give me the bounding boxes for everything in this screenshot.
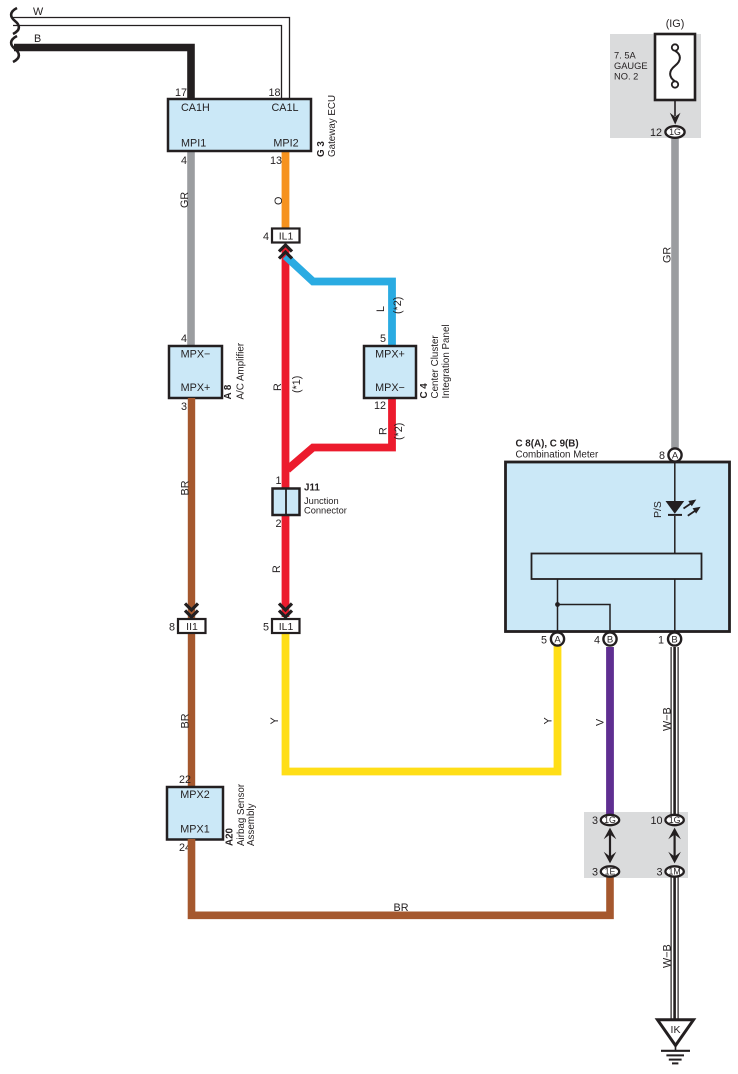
svg-text:Connector: Connector bbox=[304, 506, 347, 516]
svg-text:1: 1 bbox=[275, 475, 281, 487]
svg-text:7. 5A: 7. 5A bbox=[614, 51, 637, 61]
wire R main (red) bbox=[282, 247, 290, 617]
svg-text:13: 13 bbox=[270, 155, 282, 167]
svg-text:5: 5 bbox=[541, 635, 547, 647]
oval 1G pin 3 bbox=[601, 815, 619, 825]
svg-text:Junction: Junction bbox=[304, 496, 339, 506]
svg-text:(*2): (*2) bbox=[393, 423, 405, 440]
svg-text:18: 18 bbox=[268, 87, 280, 99]
svg-text:P/S: P/S bbox=[652, 501, 664, 518]
svg-text:1E: 1E bbox=[605, 867, 616, 877]
svg-text:A 8: A 8 bbox=[223, 384, 234, 399]
svg-text:MPX+: MPX+ bbox=[375, 349, 405, 361]
wire W-B lower bbox=[670, 877, 678, 1020]
wire Y (yellow) bbox=[286, 632, 558, 772]
cut mark W bbox=[11, 8, 19, 34]
svg-text:3: 3 bbox=[656, 867, 662, 879]
svg-text:MPX+: MPX+ bbox=[181, 382, 211, 394]
svg-text:B: B bbox=[34, 33, 41, 45]
svg-text:1: 1 bbox=[658, 635, 664, 647]
svg-text:II1: II1 bbox=[186, 621, 198, 633]
svg-text:2: 2 bbox=[275, 518, 281, 530]
svg-text:B: B bbox=[671, 634, 677, 645]
svg-text:R: R bbox=[272, 383, 284, 391]
svg-text:(*1): (*1) bbox=[291, 376, 303, 393]
svg-text:3: 3 bbox=[181, 401, 187, 413]
svg-text:IL1: IL1 bbox=[279, 621, 294, 633]
svg-text:5: 5 bbox=[380, 333, 386, 345]
ground IK triangle bbox=[658, 1020, 694, 1046]
wire BR left (brown) bbox=[188, 398, 195, 787]
svg-text:NO. 2: NO. 2 bbox=[614, 72, 638, 82]
svg-text:GAUGE: GAUGE bbox=[614, 61, 648, 71]
svg-text:Y: Y bbox=[269, 717, 281, 724]
svg-text:W−B: W−B bbox=[662, 707, 674, 731]
fuse output line and arrow bbox=[674, 100, 676, 116]
svg-text:8: 8 bbox=[169, 622, 175, 634]
svg-text:(*2): (*2) bbox=[392, 297, 404, 314]
svg-text:A: A bbox=[672, 450, 679, 461]
internal line to pin 1 bbox=[674, 579, 676, 632]
pin 1 circle B bbox=[668, 632, 681, 645]
svg-text:R: R bbox=[271, 565, 283, 573]
svg-text:MPX1: MPX1 bbox=[180, 824, 209, 836]
svg-text:(IG): (IG) bbox=[666, 18, 685, 30]
double arrow left pair bbox=[609, 834, 611, 857]
junction dot bbox=[555, 602, 560, 607]
svg-text:B: B bbox=[607, 634, 613, 645]
internal line from pin 8 bbox=[674, 462, 676, 501]
svg-text:1M: 1M bbox=[668, 867, 680, 877]
ground stem bbox=[675, 1046, 677, 1051]
svg-text:5: 5 bbox=[263, 622, 269, 634]
svg-text:GR: GR bbox=[179, 192, 191, 208]
combination meter box bbox=[506, 462, 730, 632]
wire GR right (gray) bbox=[671, 138, 679, 449]
pin 8 circle A bbox=[668, 448, 681, 461]
svg-text:4: 4 bbox=[263, 231, 269, 243]
svg-text:Integration Panel: Integration Panel bbox=[441, 324, 452, 398]
svg-text:10: 10 bbox=[650, 815, 662, 827]
svg-text:CA1L: CA1L bbox=[271, 102, 298, 114]
connector II1 pin 8 bbox=[185, 604, 198, 618]
oval 1G pin 10 bbox=[665, 815, 683, 825]
svg-text:4: 4 bbox=[181, 333, 187, 345]
pin 5 circle A bbox=[551, 632, 564, 645]
svg-text:4: 4 bbox=[181, 155, 187, 167]
svg-text:V: V bbox=[595, 718, 607, 726]
svg-text:IL1: IL1 bbox=[279, 231, 294, 243]
svg-text:MPI1: MPI1 bbox=[181, 138, 206, 150]
svg-text:12: 12 bbox=[374, 400, 386, 412]
wire R branch from C4 (red) bbox=[288, 398, 393, 470]
svg-text:W: W bbox=[33, 6, 44, 18]
cut mark B bbox=[11, 36, 19, 62]
svg-text:4: 4 bbox=[594, 635, 600, 647]
wire W-B upper (white w/ black stripe) bbox=[670, 647, 678, 814]
wire GR (left, gray) bbox=[187, 151, 195, 346]
internal line to pin 5 bbox=[557, 579, 559, 632]
wire O (orange) bbox=[282, 151, 290, 229]
A8 box A/C Amplifier bbox=[169, 346, 222, 398]
svg-text:J11: J11 bbox=[304, 483, 320, 494]
svg-text:A/C Amplifier: A/C Amplifier bbox=[236, 342, 247, 399]
svg-text:Gateway ECU: Gateway ECU bbox=[327, 95, 338, 157]
svg-text:A20: A20 bbox=[225, 827, 236, 846]
connector 1G pin 12 (oval) bbox=[665, 126, 684, 138]
wire V (purple) bbox=[606, 647, 614, 814]
LED P/S indicator bbox=[666, 501, 685, 514]
oval 1M pin 3 bbox=[665, 866, 683, 876]
connector IL1 pin 4 bbox=[279, 245, 292, 259]
svg-text:W−B: W−B bbox=[662, 944, 674, 968]
svg-text:Assembly: Assembly bbox=[246, 803, 257, 846]
svg-text:L: L bbox=[375, 306, 387, 312]
C4 box Center Cluster Integration Panel bbox=[364, 346, 416, 398]
svg-text:MPX−: MPX− bbox=[181, 349, 211, 361]
svg-text:BR: BR bbox=[394, 902, 409, 914]
svg-text:GR: GR bbox=[661, 247, 673, 263]
svg-text:22: 22 bbox=[179, 774, 191, 786]
svg-text:MPX2: MPX2 bbox=[180, 789, 209, 801]
LED emission arrows bbox=[684, 504, 691, 509]
svg-text:G 3: G 3 bbox=[316, 141, 327, 157]
svg-text:1G: 1G bbox=[669, 127, 681, 137]
ground hatch bbox=[661, 1050, 690, 1052]
fuse 7.5A GAUGE NO.2 bbox=[655, 34, 695, 100]
wire W (white, outlined) bbox=[13, 18, 290, 100]
svg-text:Center Cluster: Center Cluster bbox=[430, 335, 441, 399]
oval 1E pin 3 bbox=[601, 866, 619, 876]
wire BR bottom (brown) bbox=[192, 839, 611, 915]
wire L (blue) bbox=[286, 256, 393, 346]
wire B (black) bbox=[14, 48, 191, 100]
svg-text:1G: 1G bbox=[669, 815, 681, 825]
fuse panel background bbox=[610, 34, 701, 138]
inner rectangle bbox=[532, 554, 702, 580]
internal branch to pin 4 bbox=[558, 605, 611, 633]
svg-text:3: 3 bbox=[592, 867, 598, 879]
svg-text:MPX−: MPX− bbox=[375, 382, 405, 394]
A20 box Airbag Sensor Assembly bbox=[167, 787, 223, 840]
svg-text:O: O bbox=[273, 197, 285, 205]
svg-text:CA1H: CA1H bbox=[181, 102, 210, 114]
svg-text:MPI2: MPI2 bbox=[273, 138, 298, 150]
lower junction panel background bbox=[584, 812, 688, 878]
svg-text:A: A bbox=[554, 634, 561, 645]
svg-text:BR: BR bbox=[180, 713, 192, 728]
svg-text:12: 12 bbox=[650, 127, 662, 139]
svg-text:Y: Y bbox=[543, 717, 555, 724]
svg-text:1G: 1G bbox=[604, 815, 616, 825]
svg-text:IK: IK bbox=[671, 1024, 681, 1036]
pin 4 circle B bbox=[603, 632, 616, 645]
svg-text:BR: BR bbox=[180, 480, 192, 495]
connector IL1 pin 5 bbox=[279, 604, 292, 618]
svg-text:8: 8 bbox=[659, 450, 665, 462]
gateway ECU box G3 bbox=[168, 99, 311, 151]
double arrow right pair bbox=[673, 834, 675, 857]
svg-text:Combination Meter: Combination Meter bbox=[516, 450, 600, 461]
svg-text:C 8(A), C 9(B): C 8(A), C 9(B) bbox=[516, 439, 579, 450]
svg-text:3: 3 bbox=[592, 815, 598, 827]
svg-text:R: R bbox=[378, 427, 390, 435]
svg-text:17: 17 bbox=[175, 87, 187, 99]
svg-text:C 4: C 4 bbox=[419, 383, 430, 399]
